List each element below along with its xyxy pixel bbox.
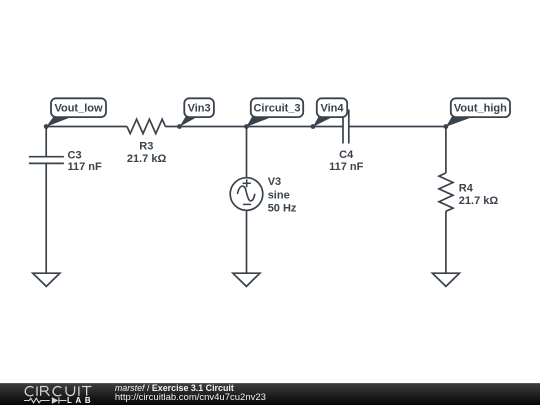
svg-text:LAB: LAB [67, 396, 94, 405]
svg-text:21.7 kΩ: 21.7 kΩ [459, 195, 499, 207]
svg-text:Vout_low: Vout_low [54, 103, 103, 115]
svg-text:21.7 kΩ: 21.7 kΩ [127, 153, 167, 165]
svg-text:C4: C4 [339, 149, 354, 161]
svg-text:sine: sine [268, 189, 290, 201]
svg-text:Circuit_3: Circuit_3 [253, 103, 300, 115]
svg-text:R4: R4 [459, 182, 474, 194]
svg-text:Vout_high: Vout_high [454, 103, 507, 115]
svg-text:117 nF: 117 nF [329, 161, 364, 173]
svg-text:R3: R3 [139, 140, 153, 152]
svg-text:50 Hz: 50 Hz [268, 203, 297, 215]
svg-text:Vin4: Vin4 [320, 103, 344, 115]
svg-text:C3: C3 [68, 150, 82, 162]
svg-text:Vin3: Vin3 [188, 103, 211, 115]
svg-text:117 nF: 117 nF [68, 161, 103, 173]
svg-text:V3: V3 [268, 176, 281, 188]
svg-text:http://circuitlab.com/cnv4u7cu: http://circuitlab.com/cnv4u7cu2nv23 [115, 392, 266, 403]
